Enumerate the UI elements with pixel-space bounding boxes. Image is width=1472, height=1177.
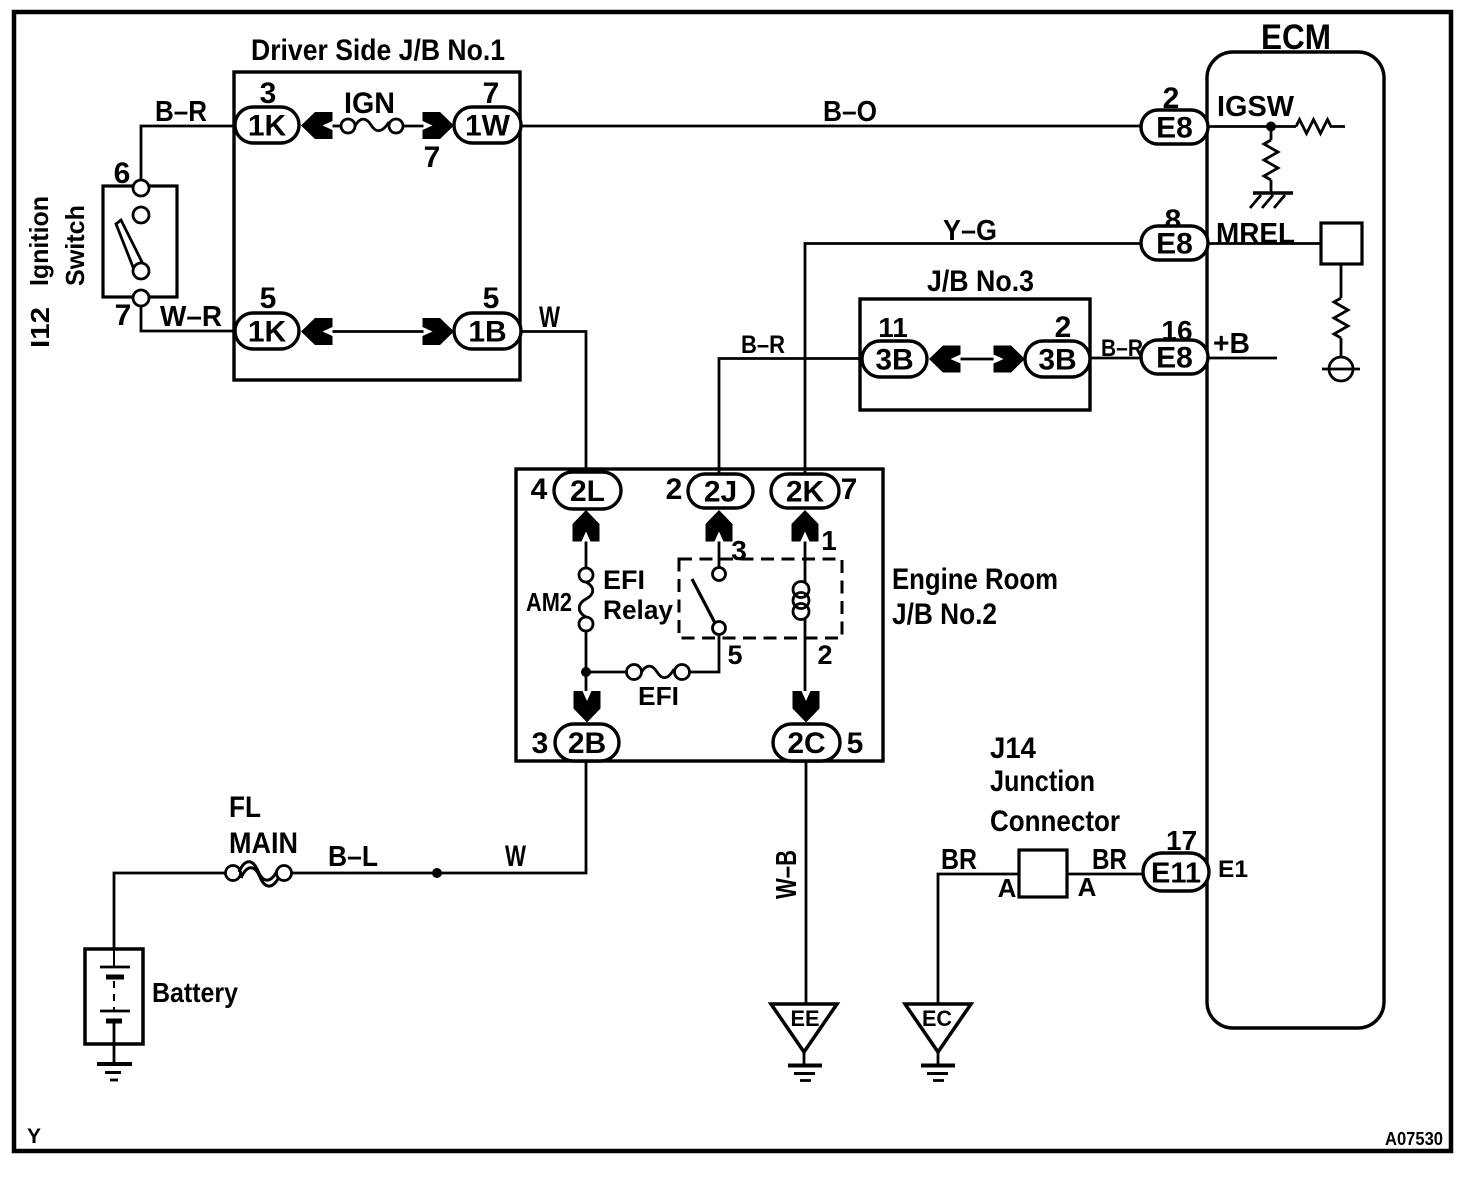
fuse AM2 xyxy=(579,568,593,631)
label I12 vertical xyxy=(25,307,55,348)
svg-text:W–R: W–R xyxy=(160,301,222,333)
arrow right at 1W xyxy=(423,112,455,139)
connector E8 pin 16 xyxy=(1141,340,1208,375)
svg-text:7: 7 xyxy=(115,299,132,332)
svg-text:2L: 2L xyxy=(570,475,605,508)
svg-text:5: 5 xyxy=(483,282,500,315)
connector 3B pin 2 xyxy=(1025,341,1090,377)
svg-text:J/B No.3: J/B No.3 xyxy=(927,265,1034,298)
label A left pin xyxy=(998,873,1017,903)
label EFI Relay xyxy=(603,565,673,625)
svg-text:5: 5 xyxy=(260,282,277,315)
svg-text:4: 4 xyxy=(531,473,548,506)
svg-text:B–L: B–L xyxy=(328,841,378,873)
chassis ground IGSW xyxy=(1250,193,1293,208)
label A07530 xyxy=(1385,1129,1443,1149)
label W-R xyxy=(160,301,222,333)
pin number 7 below arrow xyxy=(424,141,441,174)
svg-text:7: 7 xyxy=(483,77,500,110)
connector 1K pin 5 xyxy=(235,313,299,349)
relay contact lower terminal xyxy=(713,622,726,635)
svg-text:EE: EE xyxy=(791,1006,820,1031)
svg-text:FL: FL xyxy=(229,791,261,824)
connector 2J pin 2 xyxy=(688,474,753,509)
pin number 17 above E11 xyxy=(1166,825,1197,856)
ignition switch pin 6 terminal xyxy=(133,180,149,196)
arrow right at 1B xyxy=(423,318,455,345)
ground EC xyxy=(905,1004,971,1081)
connector 1K pin 3 xyxy=(235,107,299,143)
pin number 2 left of 2J xyxy=(666,473,683,506)
label Engine Room xyxy=(892,563,1058,596)
pin number 3 relay xyxy=(731,535,747,566)
svg-text:2C: 2C xyxy=(787,727,825,760)
svg-text:11: 11 xyxy=(878,312,908,343)
connector 2K pin 7 xyxy=(771,474,839,509)
svg-text:Y: Y xyxy=(27,1125,41,1148)
label J14 Junction Connector xyxy=(990,732,1120,838)
svg-text:W–B: W–B xyxy=(771,850,803,899)
pin number 5 relay xyxy=(727,640,742,670)
svg-text:2: 2 xyxy=(817,640,832,670)
label MREL xyxy=(1216,218,1295,250)
label IGN fuse xyxy=(344,87,395,120)
ECM box xyxy=(1207,52,1384,1028)
svg-text:E11: E11 xyxy=(1151,858,1201,890)
svg-text:EC: EC xyxy=(922,1006,952,1031)
wire from FL MAIN to battery xyxy=(114,873,226,949)
fuse IGN xyxy=(333,119,424,133)
wire W from battery line up to 2B xyxy=(291,761,586,873)
svg-text:+B: +B xyxy=(1213,328,1250,360)
wire B-R from 3B to E8 pin 16 xyxy=(1090,357,1141,360)
svg-text:7: 7 xyxy=(424,141,441,174)
svg-text:6: 6 xyxy=(114,157,131,190)
svg-text:B–R: B–R xyxy=(155,96,207,128)
wire W-B from 2C to EE ground xyxy=(805,761,808,1004)
node junction dot on battery wire xyxy=(432,868,442,878)
svg-text:5: 5 xyxy=(727,640,742,670)
svg-text:3: 3 xyxy=(731,535,747,566)
junction connector J14 box xyxy=(1019,850,1067,897)
pin number 5 right of 2C xyxy=(847,727,864,760)
svg-text:B–R: B–R xyxy=(1101,335,1143,362)
ground EE xyxy=(771,1004,837,1081)
svg-text:E8: E8 xyxy=(1156,112,1193,145)
wire from 2J arrow to relay contact xyxy=(718,542,721,568)
node junction dot AM2/EFI xyxy=(581,667,591,677)
wire between 3B arrows xyxy=(961,358,994,361)
label B-R xyxy=(155,96,207,128)
label Y-G xyxy=(943,215,997,247)
connector 1B pin 5 xyxy=(454,313,521,349)
arrow down at 2B xyxy=(574,691,601,723)
svg-text:5: 5 xyxy=(847,727,864,760)
arrow left at 3B xyxy=(929,346,961,373)
label BR right xyxy=(1092,844,1127,876)
ignition switch contact upper xyxy=(133,207,149,223)
arrow right at 3B xyxy=(994,346,1026,373)
svg-text:E1: E1 xyxy=(1218,856,1248,883)
pin number 5 above 1B xyxy=(483,282,500,315)
fuse EFI xyxy=(627,665,690,680)
svg-text:Engine Room: Engine Room xyxy=(892,563,1058,596)
label B-O xyxy=(823,96,877,128)
connector 1W pin 7 xyxy=(454,107,521,143)
wire from 2K arrow to relay coil xyxy=(804,542,807,583)
wire from 2L arrow to AM2 fuse xyxy=(585,542,588,569)
label BR left xyxy=(941,844,977,876)
label Battery xyxy=(152,977,238,1008)
battery cells xyxy=(100,949,130,1063)
junction block J/B No.3 box xyxy=(860,299,1090,410)
pin number 2 above E8 xyxy=(1163,82,1180,115)
svg-text:E8: E8 xyxy=(1156,342,1193,375)
wire BR from EC ground to junction connector xyxy=(938,874,1019,1004)
connector E8 pin 2 xyxy=(1141,110,1208,145)
svg-text:1K: 1K xyxy=(248,110,287,143)
connector 2L pin 4 xyxy=(554,472,621,509)
svg-text:Ignition: Ignition xyxy=(24,196,54,286)
svg-text:B–O: B–O xyxy=(823,96,877,128)
svg-text:J14: J14 xyxy=(990,732,1036,765)
svg-text:2: 2 xyxy=(1055,311,1072,344)
label +B xyxy=(1213,328,1250,360)
svg-text:I12: I12 xyxy=(25,307,55,348)
pin number 3 above 1K xyxy=(260,77,277,110)
svg-text:2K: 2K xyxy=(786,476,825,509)
wire B-O from 1W to ECM E8 pin 2 xyxy=(521,125,1141,128)
label E1 xyxy=(1218,856,1248,883)
svg-text:Driver Side J/B No.1: Driver Side J/B No.1 xyxy=(251,34,505,67)
label A right pin xyxy=(1078,872,1097,902)
resistor vertical MREL xyxy=(1334,264,1348,357)
ignition switch contact lower xyxy=(133,263,149,279)
svg-text:2: 2 xyxy=(666,473,683,506)
svg-text:1K: 1K xyxy=(248,316,287,349)
wire from EFI fuse to AM2 node xyxy=(586,671,627,674)
wire +B internal xyxy=(1208,357,1277,360)
relay coil xyxy=(793,582,809,620)
arrow up at 2K xyxy=(792,510,819,542)
svg-text:EFI: EFI xyxy=(638,681,679,711)
svg-text:IGSW: IGSW xyxy=(1217,91,1295,123)
svg-text:1B: 1B xyxy=(468,316,506,349)
wire IGSW internal xyxy=(1208,125,1296,128)
label Ignition vertical xyxy=(24,196,54,286)
label B-R right of 3B xyxy=(1101,335,1143,362)
svg-text:A07530: A07530 xyxy=(1385,1129,1443,1149)
svg-text:7: 7 xyxy=(841,473,858,506)
pin number 16 above E8 xyxy=(1161,315,1192,346)
pin number 11 above 3B xyxy=(878,312,908,343)
pin number 1 relay xyxy=(821,525,837,556)
fusible link FL MAIN xyxy=(226,862,292,886)
svg-text:3B: 3B xyxy=(1038,344,1076,377)
wire from relay contact down to EFI fuse node xyxy=(690,635,720,673)
resistor vertical IGSW pulldown xyxy=(1264,127,1278,193)
svg-text:J/B No.2: J/B No.2 xyxy=(892,598,997,631)
relay driver box MREL xyxy=(1321,223,1362,264)
pin number 7 above 1W xyxy=(483,77,500,110)
label MAIN xyxy=(229,827,298,860)
connector 3B pin 11 xyxy=(862,341,927,377)
svg-text:BR: BR xyxy=(941,844,977,876)
label Switch vertical xyxy=(60,205,90,286)
arrow left at 1K bottom xyxy=(301,318,333,345)
arrow up at 2L xyxy=(573,510,600,542)
svg-text:Y–G: Y–G xyxy=(943,215,997,247)
pin number 5 above lower 1K xyxy=(260,282,277,315)
wire B-R from ignition switch pin 6 to 1K xyxy=(141,126,235,180)
svg-text:3B: 3B xyxy=(875,344,913,377)
junction block J/B No.1 title xyxy=(251,34,505,67)
wire W from 1B down to 2L xyxy=(521,332,586,473)
svg-text:1W: 1W xyxy=(465,110,511,143)
pin number 7 right of 2K xyxy=(841,473,858,506)
pin number 7 xyxy=(115,299,132,332)
label W-B vertical xyxy=(771,850,803,899)
svg-text:BR: BR xyxy=(1092,844,1127,876)
pin number 6 xyxy=(114,157,131,190)
svg-text:Connector: Connector xyxy=(990,805,1120,838)
pin number 4 left of 2L xyxy=(531,473,548,506)
junction block Engine Room J/B No.2 box xyxy=(516,469,883,761)
arrow left at 1K top xyxy=(301,112,333,139)
arrow up at 2J xyxy=(706,510,733,542)
junction block J/B No.1 box xyxy=(234,72,520,380)
connector E8 pin 8 xyxy=(1141,226,1208,261)
wire BR from junction connector to E11 xyxy=(1067,873,1145,876)
svg-text:EFI: EFI xyxy=(603,565,645,595)
svg-text:3: 3 xyxy=(260,77,277,110)
ignition switch pin 7 terminal xyxy=(133,290,149,306)
svg-text:1: 1 xyxy=(821,525,837,556)
svg-text:Battery: Battery xyxy=(152,977,238,1008)
wire B-R from 2J up and right to J/B No.3 xyxy=(719,359,862,475)
junction block J/B No.3 title xyxy=(927,265,1034,298)
wire from AM2 fuse to junction node xyxy=(585,631,588,691)
label J/B No.2 xyxy=(892,598,997,631)
wire between arrows lower row xyxy=(333,330,424,333)
label W near battery wire xyxy=(505,840,526,873)
svg-text:Switch: Switch xyxy=(60,205,90,286)
EFI relay dashed box xyxy=(679,559,842,638)
wire W-R from ignition switch pin 7 to 1K xyxy=(141,306,235,331)
svg-text:A: A xyxy=(1078,872,1097,902)
svg-text:Junction: Junction xyxy=(990,765,1095,798)
label W xyxy=(539,301,560,334)
circle terminal MREL xyxy=(1322,357,1360,381)
svg-text:MAIN: MAIN xyxy=(229,827,298,860)
connector 2B pin 3 xyxy=(555,724,619,761)
relay contact upper terminal xyxy=(713,568,726,581)
svg-text:Relay: Relay xyxy=(603,595,673,625)
svg-text:W: W xyxy=(539,301,560,334)
svg-text:B–R: B–R xyxy=(741,331,785,359)
label AM2 xyxy=(526,587,572,617)
wire Y-G from 2K up to ECM E8 pin 8 xyxy=(805,244,1141,475)
arrow down at 2C xyxy=(793,691,820,723)
label FL xyxy=(229,791,261,824)
svg-text:A: A xyxy=(998,873,1017,903)
ground below battery xyxy=(97,1064,132,1080)
connector E11 pin 17 xyxy=(1143,853,1209,891)
svg-text:W: W xyxy=(505,840,526,873)
resistor horizontal IGSW xyxy=(1296,120,1345,134)
pin number 3 left of 2B xyxy=(532,727,549,760)
svg-text:MREL: MREL xyxy=(1216,218,1295,250)
svg-text:2B: 2B xyxy=(568,727,606,760)
label B-L xyxy=(328,841,378,873)
ignition switch I12 box xyxy=(103,186,177,297)
wire from relay coil down to 2C xyxy=(804,618,807,691)
node dot IGSW xyxy=(1266,122,1276,132)
svg-text:AM2: AM2 xyxy=(526,587,572,617)
battery box xyxy=(85,949,143,1044)
relay switch blade xyxy=(692,579,715,623)
wire MREL internal xyxy=(1208,242,1321,245)
label B-R left of 3B xyxy=(741,331,785,359)
label EFI fuse xyxy=(638,681,679,711)
svg-text:3: 3 xyxy=(532,727,549,760)
connector 2C pin 5 xyxy=(773,724,840,761)
pin number 2 above right 3B xyxy=(1055,311,1072,344)
pin number 8 above E8 xyxy=(1165,204,1182,237)
svg-text:2J: 2J xyxy=(704,476,737,509)
svg-text:E8: E8 xyxy=(1156,228,1193,261)
ignition switch blade xyxy=(116,220,142,267)
pin number 2 relay coil xyxy=(817,640,832,670)
ECM title xyxy=(1261,18,1331,57)
label IGSW xyxy=(1217,91,1295,123)
svg-text:IGN: IGN xyxy=(344,87,395,120)
label Y page code xyxy=(27,1125,41,1148)
